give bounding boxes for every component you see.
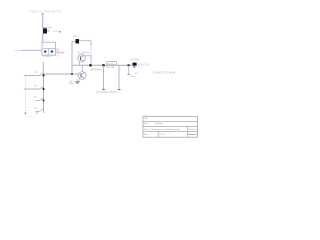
svg-text:GND: GND [131, 76, 136, 78]
relay K1 [42, 42, 56, 55]
value label R1 [107, 66, 115, 69]
svg-text:NPN: NPN [69, 83, 74, 86]
switch S1c [34, 97, 43, 101]
switch S1d pivot tail [25, 111, 37, 118]
note above title block [144, 114, 151, 117]
capacitor C9 [133, 63, 137, 68]
wire to ground stub [128, 65, 130, 74]
wire to pin P1 [103, 65, 105, 89]
wire D1 to relay K1 [42, 34, 44, 43]
svg-text:1 of 1: 1 of 1 [159, 134, 165, 136]
wire K1 to switch bus [42, 62, 44, 74]
title block [143, 117, 198, 138]
wire from top net to D1 [42, 14, 44, 29]
svg-text:Sheet of: Sheet of [188, 128, 197, 131]
diode D5 [74, 35, 80, 44]
wire base feed to Q2 [44, 73, 79, 75]
wire Q1 collector stub [85, 55, 91, 57]
svg-text:Q1 2N3906: Q1 2N3906 [77, 52, 90, 55]
wire Q2 emitter [78, 79, 80, 82]
svg-text:FUSE: FUSE [108, 63, 114, 65]
wire D5 left lead down [72, 42, 76, 75]
note near ground [134, 73, 139, 75]
switch S1a [24, 72, 43, 76]
ground under Q2 [75, 82, 80, 84]
pin label under K1 [43, 55, 53, 58]
svg-text:8 RELAY: 8 RELAY [43, 55, 53, 58]
diode D1 [43, 27, 52, 34]
pin tick P1 [102, 88, 105, 90]
junction base node [71, 73, 73, 75]
wire D5 to collector rail [79, 41, 91, 66]
transistor Q2 [78, 72, 86, 80]
junction S1b [42, 88, 44, 90]
wire main rail [72, 64, 137, 66]
junction S1c [43, 99, 45, 101]
svg-text:OPTIONAL RS232: OPTIONAL RS232 [96, 91, 117, 94]
svg-text:+12V CH: +12V CH [138, 62, 149, 66]
junction main rail / D5 [89, 64, 92, 67]
junction main rail / connector [102, 64, 105, 67]
value label C9 [130, 59, 140, 62]
svg-text:RELAY: RELAY [56, 51, 65, 55]
net label +12V [138, 62, 149, 66]
svg-text:MOTOR A: MOTOR A [91, 69, 103, 72]
wire Q2 collector [81, 65, 83, 71]
resistor R1 [107, 62, 117, 66]
pin label right of K1 [56, 55, 59, 58]
designator K1 [56, 48, 65, 55]
svg-text:PWR MOTOR: PWR MOTOR [44, 9, 62, 13]
note right of D1 [53, 30, 61, 33]
power flag bar [41, 12, 44, 14]
node VCC top net labels [29, 9, 61, 13]
svg-text:Number: Number [155, 122, 163, 125]
ground stub tick [127, 75, 135, 78]
mechanical link of S1 (dashed) [24, 76, 26, 113]
svg-text:CONNECT TO MAIN: CONNECT TO MAIN [152, 71, 176, 74]
switch S1b [24, 86, 43, 90]
svg-text:4HEAD 5V: 4HEAD 5V [29, 9, 43, 13]
switch S1d [34, 108, 43, 112]
net label MOTOR [91, 69, 103, 72]
label Q1 [77, 52, 90, 55]
svg-text:4 POS: 4 POS [27, 117, 34, 119]
wire to pin P2 [118, 65, 120, 89]
wire left feed to relay K1 [15, 49, 43, 51]
svg-text:1N4: 1N4 [53, 30, 58, 33]
svg-text:Drawn: Drawn [188, 133, 195, 136]
junction S1a [42, 74, 44, 76]
junction rail / ground stub [127, 64, 129, 66]
svg-text:C9 100u: C9 100u [130, 59, 140, 62]
svg-text:C:\Documents and Settings\des: C:\Documents and Settings\des [150, 128, 182, 131]
wire switch bus [43, 74, 45, 113]
label Q2 [69, 80, 74, 86]
value label D1 [47, 30, 51, 33]
label below pins [96, 91, 117, 94]
pin tick P2 [118, 88, 121, 90]
transistor Q1 [78, 55, 85, 62]
wire Q1 emitter [79, 62, 81, 66]
svg-text:R1 10k: R1 10k [107, 66, 115, 69]
note text right [152, 71, 176, 74]
